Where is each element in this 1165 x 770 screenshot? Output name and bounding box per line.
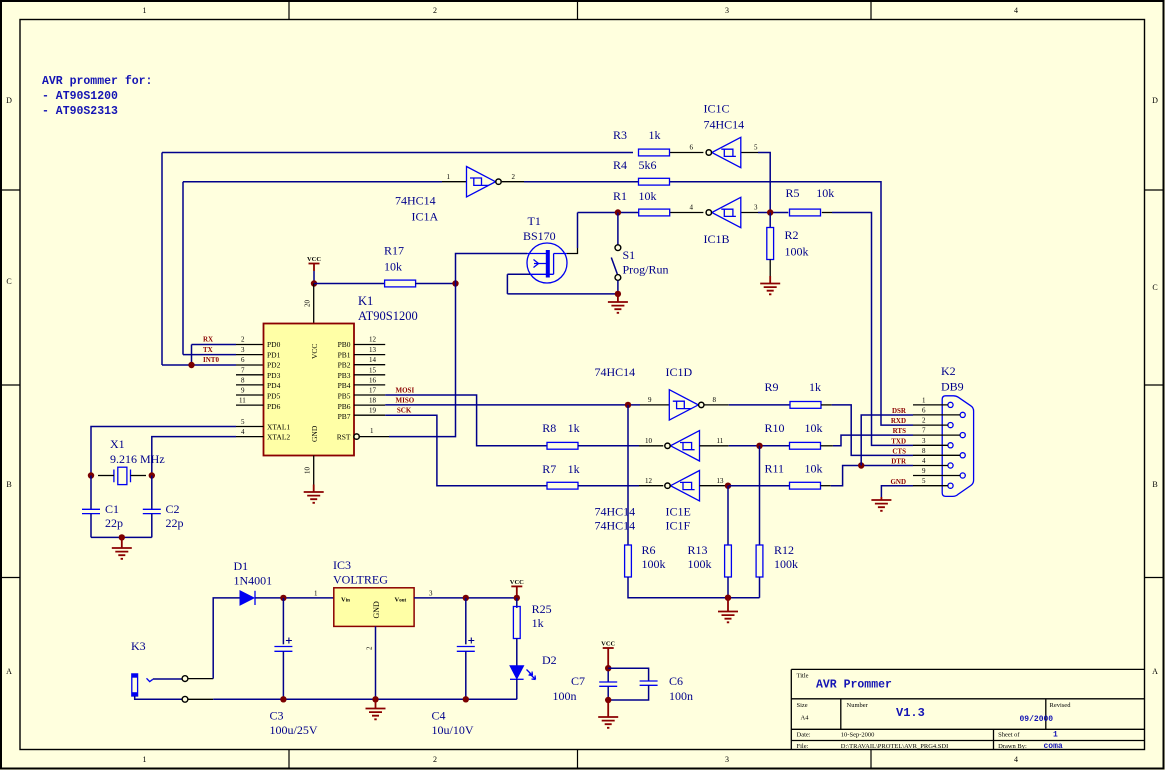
svg-text:MISO: MISO <box>396 397 415 405</box>
wire D1 to IC3 <box>256 597 334 599</box>
svg-text:C4: C4 <box>432 709 446 723</box>
svg-text:RXD: RXD <box>891 417 906 425</box>
IC K1 AT90S1200 body <box>264 294 418 456</box>
wire pulldown ground bus <box>628 577 760 598</box>
wire R4 to RXD corner <box>670 182 914 425</box>
svg-text:R8: R8 <box>542 421 556 435</box>
wire R17 right lead <box>415 283 455 285</box>
K2 pin stubs <box>913 405 960 486</box>
wire RX vertical <box>191 345 193 366</box>
svg-text:TX: TX <box>203 346 213 354</box>
svg-text:Title: Title <box>797 673 809 680</box>
junction crystal right <box>149 472 155 478</box>
svg-text:7: 7 <box>922 427 926 435</box>
wire C1 top lead <box>90 476 92 510</box>
svg-text:1: 1 <box>370 427 374 435</box>
resistor R9 <box>790 402 821 409</box>
svg-text:PB7: PB7 <box>338 412 351 421</box>
svg-text:10k: 10k <box>816 186 834 200</box>
svg-text:C2: C2 <box>166 502 180 516</box>
junction INT0 node <box>188 362 194 368</box>
wire R1 to IC1B output stub <box>670 212 704 214</box>
svg-text:2: 2 <box>241 336 245 344</box>
svg-text:CTS: CTS <box>892 447 906 455</box>
svg-text:3: 3 <box>922 437 926 445</box>
junction R17 gate node <box>452 280 458 286</box>
right border zone dividers <box>1145 190 1164 578</box>
wire R9 lead <box>821 404 832 406</box>
svg-text:8: 8 <box>922 447 926 455</box>
svg-text:11: 11 <box>239 397 246 405</box>
switch S1 <box>615 245 621 251</box>
wire XTAL2 pin stub <box>236 436 264 438</box>
K1 left pin names <box>267 340 290 442</box>
K3 sleeve circle <box>182 696 188 702</box>
svg-text:16: 16 <box>369 376 377 384</box>
svg-text:11: 11 <box>717 437 724 445</box>
wire C2 top lead <box>151 476 153 510</box>
op-amp inverter IC1F <box>665 471 700 501</box>
wire T1 source to S1 ground <box>507 293 618 295</box>
svg-text:C6: C6 <box>669 674 683 688</box>
svg-text:PD3: PD3 <box>267 371 281 380</box>
wire R12 riser <box>759 446 761 545</box>
wire K3 sleeve stub <box>188 698 213 700</box>
wire S1 bottom lead <box>617 280 619 294</box>
wire R3 to IC1C output stub <box>670 152 704 154</box>
wire R11 to DTR pin 4 <box>831 466 913 486</box>
svg-text:A: A <box>1152 667 1158 676</box>
wire IC1C input stub <box>741 152 758 154</box>
svg-text:1N4001: 1N4001 <box>234 574 273 588</box>
crystal X1 <box>110 437 165 485</box>
wire IC1F input stub <box>639 485 663 487</box>
svg-text:2: 2 <box>512 173 516 181</box>
svg-text:10k: 10k <box>805 421 823 435</box>
wire XTAL2 net <box>152 437 236 476</box>
svg-text:6: 6 <box>690 144 694 152</box>
junction VCC R17 node <box>311 280 317 286</box>
svg-text:17: 17 <box>369 387 377 395</box>
junction S1 ground node <box>615 291 621 297</box>
svg-text:4: 4 <box>1014 6 1018 15</box>
capacitor C6 <box>640 674 693 703</box>
svg-text:RST: RST <box>337 433 351 442</box>
svg-text:GND: GND <box>372 601 381 619</box>
resistor R13 <box>725 545 732 577</box>
wire GND pin 10 stub <box>313 456 315 485</box>
svg-text:1: 1 <box>314 590 318 598</box>
svg-text:74HC14: 74HC14 <box>704 118 745 132</box>
svg-text:D: D <box>1152 96 1158 105</box>
wire INT0 horizontal <box>162 364 236 366</box>
svg-text:R13: R13 <box>688 543 708 557</box>
wire R7 to IC1F input <box>578 485 639 487</box>
wire R10 to RTS pin 7 <box>833 435 913 446</box>
svg-text:74HC14: 74HC14 <box>595 505 636 519</box>
wire MISO row <box>385 404 640 406</box>
svg-text:R2: R2 <box>785 228 799 242</box>
resistor R5 <box>790 209 821 216</box>
ground under C7 <box>607 700 609 717</box>
resistor R7 <box>547 482 578 489</box>
svg-text:R11: R11 <box>765 462 785 476</box>
svg-text:6: 6 <box>241 356 245 364</box>
resistor R2 <box>767 228 774 260</box>
K1 RST bubble and stub <box>354 434 359 439</box>
svg-text:Number: Number <box>847 702 869 709</box>
wire SCK to R7 <box>385 415 547 486</box>
svg-text:6: 6 <box>922 406 926 414</box>
svg-text:B: B <box>1152 480 1157 489</box>
ground under pulldowns <box>727 598 729 612</box>
svg-text:2: 2 <box>366 646 374 650</box>
wire IC1D output stub <box>704 404 728 406</box>
svg-text:XTAL2: XTAL2 <box>267 433 290 442</box>
resistor R1 <box>639 209 670 216</box>
svg-text:10u/10V: 10u/10V <box>432 723 474 737</box>
wire bottom supply bus <box>213 698 517 700</box>
wire R13 riser <box>727 486 729 545</box>
svg-text:Drawn By:: Drawn By: <box>998 743 1027 750</box>
svg-text:INT0: INT0 <box>203 356 219 364</box>
wire DSR riser <box>861 415 913 466</box>
svg-text:AVR Prommer: AVR Prommer <box>816 679 892 692</box>
op-amp inverter IC1D <box>669 390 704 420</box>
svg-text:19: 19 <box>369 407 377 415</box>
junction R13 node <box>725 483 731 489</box>
svg-text:IC1A: IC1A <box>412 210 439 224</box>
resistor R25 <box>513 607 520 639</box>
svg-text:3: 3 <box>754 204 758 212</box>
svg-text:13: 13 <box>717 477 725 485</box>
svg-text:R7: R7 <box>542 462 556 476</box>
svg-text:2: 2 <box>433 6 437 15</box>
resistor R17 <box>385 280 416 287</box>
wire IC1B input to junction <box>758 212 788 214</box>
svg-text:R10: R10 <box>765 421 785 435</box>
svg-text:1: 1 <box>143 755 147 764</box>
wire PD0 pin stub <box>236 344 264 346</box>
svg-text:5: 5 <box>922 477 926 485</box>
ground under K1 <box>313 485 315 493</box>
svg-text:1k: 1k <box>809 380 821 394</box>
svg-text:1: 1 <box>922 396 926 404</box>
svg-text:S1: S1 <box>623 248 636 262</box>
junction pulldown ground <box>725 595 731 601</box>
power VCC output <box>510 579 524 587</box>
connector K3 jack <box>131 639 153 696</box>
svg-text:AVR prommer for:: AVR prommer for: <box>42 75 152 88</box>
wire TX horizontal <box>183 354 236 356</box>
wire R2 bottom lead <box>769 260 771 277</box>
op-amp inverter IC1B <box>706 197 741 227</box>
svg-text:22p: 22p <box>105 516 123 530</box>
svg-text:R25: R25 <box>532 602 552 616</box>
svg-text:Vout: Vout <box>395 597 407 604</box>
svg-text:GND: GND <box>890 478 906 486</box>
wire crystal ground bus <box>91 536 152 538</box>
svg-text:12: 12 <box>645 477 653 485</box>
wire TX vertical <box>182 182 184 355</box>
svg-text:1: 1 <box>1053 731 1058 740</box>
svg-text:PD1: PD1 <box>267 350 281 359</box>
svg-text:10k: 10k <box>639 189 657 203</box>
svg-text:R4: R4 <box>613 158 627 172</box>
svg-text:C: C <box>6 277 11 286</box>
title block frame <box>791 669 1144 749</box>
svg-text:100k: 100k <box>688 557 712 571</box>
svg-text:B: B <box>6 480 11 489</box>
svg-text:1k: 1k <box>532 616 544 630</box>
svg-text:22p: 22p <box>166 516 184 530</box>
svg-text:X1: X1 <box>110 437 125 451</box>
wire RST stub <box>360 436 389 438</box>
svg-text:Prog/Run: Prog/Run <box>623 263 669 277</box>
wire VCC pin 20 stub <box>313 284 315 324</box>
svg-text:VOLTREG: VOLTREG <box>333 573 388 587</box>
junction DSR DTR node <box>858 462 864 468</box>
left border zone dividers <box>1 190 20 578</box>
wire R25 top lead <box>516 598 518 608</box>
svg-text:R12: R12 <box>774 543 794 557</box>
wire T1 drain stub <box>567 248 578 254</box>
junction IC3 ground node <box>372 696 378 702</box>
connector K2 DB9 <box>941 364 974 496</box>
wire K3 tip stub <box>188 678 213 680</box>
wire C1 bottom lead <box>90 514 92 538</box>
svg-text:C1: C1 <box>105 502 119 516</box>
wire IC1E output to R10 <box>729 445 790 447</box>
svg-text:100n: 100n <box>553 689 577 703</box>
svg-text:100u/25V: 100u/25V <box>270 723 318 737</box>
wire MOSI to R8 <box>385 395 547 446</box>
svg-text:09/2000: 09/2000 <box>1020 715 1054 724</box>
wire T1 source corner <box>507 274 530 294</box>
svg-text:PB3: PB3 <box>338 371 351 380</box>
svg-text:A4: A4 <box>801 715 810 722</box>
svg-text:VCC: VCC <box>310 344 319 359</box>
svg-text:coma: coma <box>1044 742 1063 751</box>
wire R8 to IC1E input <box>578 445 639 447</box>
svg-text:IC1F: IC1F <box>666 519 691 533</box>
top border zone dividers <box>289 1 871 20</box>
svg-text:15: 15 <box>369 366 377 374</box>
wire R9 to CTS pin 8 <box>832 405 913 456</box>
svg-text:XTAL1: XTAL1 <box>267 423 290 432</box>
svg-text:- AT90S2313: - AT90S2313 <box>42 105 118 118</box>
wire T1 drain to R1 row <box>578 212 639 214</box>
wire K3 tip contact <box>153 678 182 680</box>
svg-text:IC3: IC3 <box>333 558 351 572</box>
svg-text:4: 4 <box>690 204 694 212</box>
svg-text:GND: GND <box>310 425 319 442</box>
svg-text:7: 7 <box>241 366 245 374</box>
capacitor C7 <box>553 674 618 703</box>
wire K3 sleeve <box>135 696 182 699</box>
svg-text:AT90S1200: AT90S1200 <box>358 309 418 323</box>
junction C7 bottom node <box>605 697 611 703</box>
wire IC1F output stub <box>700 485 729 487</box>
svg-text:1: 1 <box>143 6 147 15</box>
svg-text:10k: 10k <box>384 260 402 274</box>
capacitor C4 <box>457 638 475 652</box>
svg-text:4: 4 <box>241 428 245 436</box>
wire R2 top lead <box>769 213 771 228</box>
wire PD1 pin stub <box>236 354 264 356</box>
K2 pin numbers <box>922 396 926 485</box>
ground under IC3 <box>375 699 377 708</box>
junction C4 bus node <box>463 696 469 702</box>
svg-text:K3: K3 <box>131 639 146 653</box>
wire crystal left stub <box>98 475 114 477</box>
svg-text:PD5: PD5 <box>267 392 281 401</box>
wire PD2 pin stub <box>236 364 264 366</box>
svg-text:PB4: PB4 <box>338 381 351 390</box>
svg-text:C: C <box>1152 283 1157 292</box>
svg-text:Size: Size <box>797 702 808 709</box>
junction crystal left <box>88 472 94 478</box>
svg-text:SCK: SCK <box>397 407 412 415</box>
svg-text:RTS: RTS <box>893 427 906 435</box>
svg-text:PB6: PB6 <box>338 402 351 411</box>
svg-text:IC1D: IC1D <box>666 365 693 379</box>
diode D2 LED <box>510 653 557 680</box>
junction MISO R6 node <box>625 402 631 408</box>
K1 right pin stubs <box>354 345 385 416</box>
capacitor C3 <box>274 638 292 652</box>
junction D1 C3 node <box>280 595 286 601</box>
wire XTAL1 pin stub <box>236 426 264 428</box>
capacitor C2 <box>143 502 184 530</box>
wire C4 bottom lead <box>465 651 467 699</box>
svg-text:1k: 1k <box>568 462 580 476</box>
svg-text:100k: 100k <box>642 557 666 571</box>
transistor T1 <box>523 214 567 283</box>
svg-text:9: 9 <box>648 396 652 404</box>
svg-text:74HC14: 74HC14 <box>395 194 436 208</box>
wire net PD0/PD2 loop vertical <box>161 153 163 366</box>
svg-text:PD6: PD6 <box>267 402 281 411</box>
K1 right pin numbers <box>369 336 377 436</box>
svg-text:R1: R1 <box>613 189 627 203</box>
svg-text:C3: C3 <box>270 709 284 723</box>
svg-text:3: 3 <box>241 346 245 354</box>
op-amp inverter IC1E <box>665 431 700 461</box>
svg-text:- AT90S1200: - AT90S1200 <box>42 90 118 103</box>
K1 right pin names <box>337 340 351 442</box>
K1 left pin numbers <box>239 336 246 437</box>
svg-text:PB2: PB2 <box>338 361 351 370</box>
resistor R10 <box>790 442 821 449</box>
junction IC1B input node <box>767 209 773 215</box>
wire IC1F output to R11 <box>729 485 790 487</box>
svg-text:IC1B: IC1B <box>704 232 730 246</box>
junction crystal ground <box>119 534 125 540</box>
svg-text:IC1C: IC1C <box>704 102 730 116</box>
wire IC1E input stub <box>639 445 663 447</box>
wire K3 to D1 <box>213 598 240 679</box>
capacitor C1 <box>82 502 123 530</box>
svg-text:4: 4 <box>1014 755 1018 764</box>
wire C6 branch top <box>608 668 648 681</box>
svg-text:5: 5 <box>754 144 758 152</box>
K1 left pin stubs <box>236 375 264 405</box>
wire R17 left lead <box>314 283 385 285</box>
svg-text:D2: D2 <box>542 653 557 667</box>
svg-text:PB0: PB0 <box>338 340 351 349</box>
svg-text:D1: D1 <box>234 559 249 573</box>
wire IC1A output stub <box>502 181 524 183</box>
svg-text:10k: 10k <box>805 462 823 476</box>
svg-text:10: 10 <box>304 467 312 475</box>
svg-text:18: 18 <box>369 397 377 405</box>
svg-text:Revised: Revised <box>1050 702 1072 709</box>
wire IC1A input row <box>183 181 442 183</box>
svg-text:PB5: PB5 <box>338 392 351 401</box>
svg-text:MOSI: MOSI <box>396 387 415 395</box>
svg-text:13: 13 <box>369 346 377 354</box>
svg-text:DB9: DB9 <box>941 380 964 394</box>
wire D2 bottom lead <box>516 679 518 699</box>
svg-text:1k: 1k <box>649 128 661 142</box>
svg-text:PD0: PD0 <box>267 340 281 349</box>
svg-text:2: 2 <box>922 417 926 425</box>
resistor R11 <box>790 482 821 489</box>
junction VCC output node <box>514 595 520 601</box>
wire C4 top lead <box>465 598 467 644</box>
wire row to R3 <box>162 152 633 154</box>
svg-text:100k: 100k <box>774 557 798 571</box>
wire R5 lead <box>822 212 832 214</box>
svg-text:100k: 100k <box>785 245 809 259</box>
K3 tip circle <box>182 676 188 682</box>
svg-text:5k6: 5k6 <box>639 158 657 172</box>
svg-text:10-Sep-2000: 10-Sep-2000 <box>841 732 875 739</box>
junction C7 top node <box>605 665 611 671</box>
junction R12 node <box>756 443 762 449</box>
wire DB9 ground <box>881 486 913 497</box>
wire R5 to TXD corner <box>832 213 913 446</box>
svg-text:74HC14: 74HC14 <box>595 365 636 379</box>
wire R10 lead <box>821 445 833 447</box>
resistor R3 <box>639 149 670 156</box>
wire IC3 output <box>414 597 517 599</box>
svg-text:PD4: PD4 <box>267 381 281 390</box>
svg-text:1: 1 <box>447 173 451 181</box>
svg-text:12: 12 <box>369 336 377 344</box>
svg-text:9.216 MHz: 9.216 MHz <box>110 452 165 466</box>
svg-text:Date:: Date: <box>797 732 811 739</box>
wire RST riser <box>389 284 456 437</box>
svg-text:R9: R9 <box>765 380 779 394</box>
svg-text:TXD: TXD <box>891 437 906 445</box>
wire IC1E output stub <box>700 445 729 447</box>
svg-text:10: 10 <box>645 437 653 445</box>
svg-text:C7: C7 <box>571 674 585 688</box>
diode D1 <box>234 559 273 605</box>
svg-text:5: 5 <box>241 418 245 426</box>
wire S1 top lead <box>617 213 619 245</box>
wire RX horizontal <box>192 344 237 346</box>
svg-text:Vin: Vin <box>341 597 350 604</box>
wire C3 bottom lead <box>282 651 284 699</box>
svg-text:D: D <box>6 96 12 105</box>
svg-text:3: 3 <box>725 6 729 15</box>
svg-text:A: A <box>6 667 12 676</box>
ground under DB9 <box>880 497 882 500</box>
wire C3 top lead <box>282 598 284 644</box>
